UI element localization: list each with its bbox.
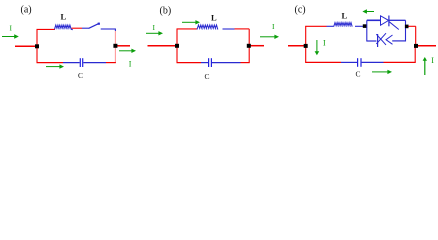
- arrow input b: [146, 31, 163, 35]
- arrow down c input: [315, 40, 320, 55]
- arrow input a: [2, 34, 19, 38]
- wire b left vertical: [176, 29, 178, 63]
- diode loop bottom rail left: [367, 40, 377, 42]
- capacitor C (b) plates: [208, 58, 210, 67]
- arrow left above diode: [362, 9, 374, 13]
- svg-text:L: L: [342, 11, 348, 21]
- svg-text:C: C: [356, 70, 361, 79]
- capacitor C (c) left lead: [341, 61, 357, 63]
- diode loop top rail left: [367, 19, 381, 21]
- svg-text:I: I: [10, 24, 13, 33]
- diode loop right vertical: [405, 20, 407, 41]
- node c diode-right: [405, 25, 409, 29]
- wire a right vertical upper: [114, 29, 116, 32]
- svg-text:C: C: [78, 71, 83, 80]
- wire c left vertical: [305, 26, 307, 62]
- wire b bottom left red: [177, 62, 202, 64]
- node c diode-left: [363, 24, 367, 28]
- arrow output a: [119, 49, 136, 53]
- diode D2 arrowhead: [386, 35, 393, 44]
- inductor L (c) lead right: [355, 25, 363, 27]
- wire c right vertical: [415, 26, 417, 44]
- node a-right: [113, 44, 117, 48]
- node c-left: [304, 44, 308, 48]
- diode loop bottom rail right: [392, 40, 405, 42]
- capacitor C (a) plates: [79, 58, 81, 67]
- wire c bottom right red: [384, 61, 416, 63]
- svg-text:I: I: [431, 56, 434, 65]
- wire b bottom right red: [241, 62, 250, 64]
- wire c top left red: [305, 25, 326, 27]
- capacitor C (b) left lead: [201, 62, 208, 64]
- diode D1 cathode bar: [388, 16, 390, 27]
- wire a top left: [37, 28, 56, 30]
- wire a bottom right red: [106, 62, 116, 64]
- wire c tap top: [406, 25, 416, 27]
- diode loop left vertical: [366, 20, 368, 41]
- diode D1 triangle: [381, 16, 389, 25]
- svg-text:C: C: [205, 72, 210, 81]
- svg-text:(c): (c): [295, 5, 306, 16]
- node b-right: [247, 44, 251, 48]
- svg-text:L: L: [211, 13, 217, 23]
- svg-text:(b): (b): [160, 6, 172, 17]
- arrow output b: [260, 35, 279, 39]
- capacitor C (c) right lead: [362, 61, 384, 63]
- node b-left: [175, 44, 179, 48]
- capacitor C (b) right lead: [212, 62, 241, 64]
- wire b right vertical: [248, 29, 250, 63]
- svg-text:I: I: [153, 23, 156, 32]
- wire c bottom left red: [305, 61, 341, 63]
- arrow bottom a: [46, 64, 64, 68]
- capacitor C (c) plates: [357, 58, 359, 67]
- wire c right vertical lower: [414, 48, 416, 63]
- diode loop top rail right: [390, 19, 406, 21]
- svg-text:I: I: [323, 38, 326, 47]
- wire b top lead blue: [223, 28, 235, 30]
- arrow bottom c: [372, 70, 392, 74]
- wire b output stub: [249, 45, 264, 47]
- arrow up c output: [423, 57, 427, 75]
- inductor L (c): [334, 23, 353, 27]
- wire a left vertical: [36, 29, 38, 62]
- wire input c: [288, 45, 306, 47]
- inductor L (a): [55, 25, 73, 30]
- wire b top right red: [235, 28, 250, 30]
- wire a output stub: [116, 45, 130, 47]
- switch blade tip: [98, 23, 100, 25]
- wire c output stub: [417, 45, 436, 47]
- wire input a: [15, 45, 37, 47]
- switch S (a) contact wire: [101, 28, 116, 30]
- wire a right vertical lower: [114, 48, 116, 63]
- node a-left: [35, 44, 39, 48]
- capacitor C (a) right lead: [83, 62, 106, 64]
- wire b top left: [177, 28, 198, 30]
- diode D2 cross diagonals: [376, 33, 386, 45]
- node c-right: [414, 44, 418, 48]
- wire input b: [148, 45, 178, 47]
- diode D1 stray diagonal: [389, 22, 399, 30]
- svg-text:(a): (a): [21, 5, 32, 16]
- inductor L (c) lead left: [327, 25, 334, 27]
- switch S (a) blade: [89, 24, 99, 29]
- svg-text:I: I: [129, 59, 132, 68]
- svg-text:I: I: [272, 22, 275, 31]
- svg-text:L: L: [61, 12, 67, 22]
- switch S (a) lead: [82, 27, 89, 29]
- diode D2 bar: [377, 34, 379, 47]
- arrow top b: [182, 20, 200, 24]
- wire a bottom left red: [37, 62, 64, 64]
- wire a between L and switch: [72, 27, 83, 29]
- capacitor C (a) left lead: [63, 62, 80, 64]
- inductor L (b): [197, 25, 218, 30]
